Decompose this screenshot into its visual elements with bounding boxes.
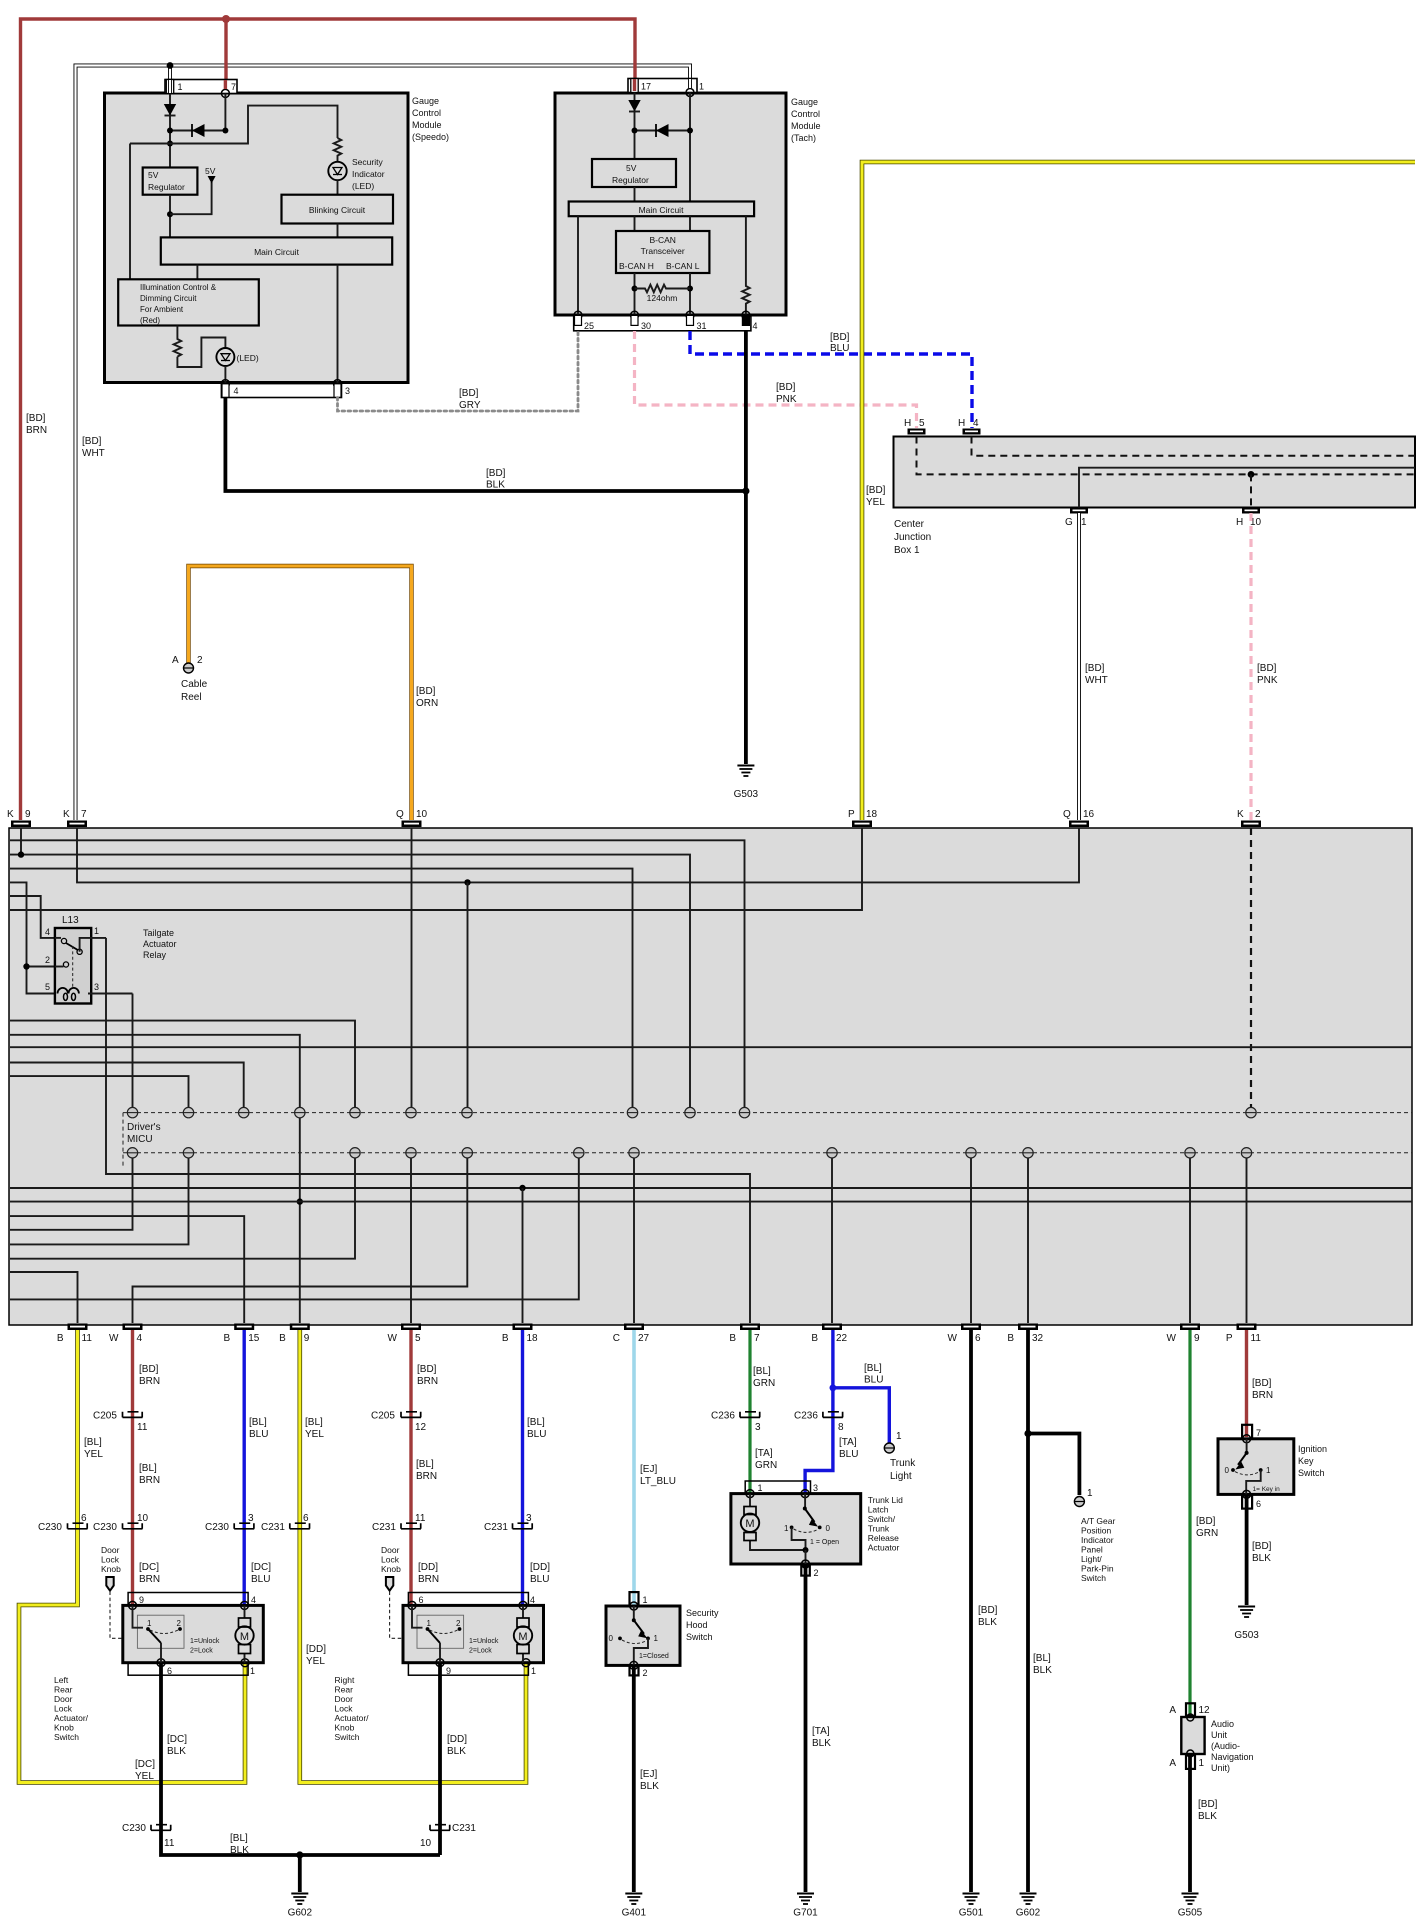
svg-text:(LED): (LED): [237, 353, 259, 363]
Blinking Circuit box: [282, 195, 394, 224]
connector B11 MICU bottom: [57, 1324, 92, 1345]
svg-text:H: H: [904, 418, 911, 429]
connector W9 MICU bottom: [1167, 1324, 1200, 1345]
wire MICU K9 line to row1-690: [10, 828, 690, 1108]
resistor R3 tach right: [742, 216, 750, 322]
svg-text:(Speedo): (Speedo): [412, 132, 449, 142]
svg-text:[BL]: [BL]: [84, 1437, 102, 1448]
connector C231-6: [261, 1513, 310, 1533]
wire MICU line to B11: [10, 1272, 78, 1323]
terminal MICU row1 x744.5: [739, 1107, 749, 1117]
connector G1: [1065, 508, 1088, 529]
svg-text:[BD]: [BD]: [830, 332, 850, 343]
connector B7 MICU bottom: [729, 1324, 760, 1345]
svg-text:C236: C236: [794, 1411, 818, 1422]
svg-text:BLK: BLK: [1198, 1811, 1217, 1822]
diode D1 speedo pin1: [164, 94, 176, 168]
Security Hood Switch pin 1 connector: [630, 1592, 648, 1606]
wire security hood to G401: [632, 1666, 636, 1892]
svg-text:G501: G501: [959, 1908, 984, 1919]
Ignition Key Switch pin 7 connector: [1242, 1425, 1261, 1439]
svg-text:L13: L13: [62, 915, 79, 926]
connector C231-11: [372, 1513, 426, 1533]
wire C27 to row2-634: [633, 1158, 635, 1323]
svg-text:Unit): Unit): [1211, 1763, 1230, 1773]
terminal AT gear pin 1: [1074, 1488, 1093, 1507]
svg-text:G701: G701: [793, 1908, 818, 1919]
svg-text:G505: G505: [1178, 1908, 1203, 1919]
svg-text:1= Key in: 1= Key in: [1253, 1486, 1281, 1493]
wire [BD] WHT white double line top: [76, 66, 691, 821]
junction dot trunk common: [803, 1547, 809, 1553]
wire W6 to row2-971: [970, 1158, 972, 1323]
svg-text:6: 6: [167, 1666, 172, 1676]
wire CJB internal solid G1: [1079, 468, 1415, 508]
svg-text:[DC]: [DC]: [251, 1562, 271, 1573]
connector K9: [7, 809, 31, 827]
wire B9 row1 to connector: [299, 1118, 301, 1323]
wire W4 to row2-467: [133, 1158, 468, 1323]
svg-text:Box 1: Box 1: [894, 545, 920, 556]
svg-text:BLU: BLU: [249, 1429, 268, 1440]
svg-text:Dimming Circuit: Dimming Circuit: [140, 294, 197, 303]
svg-text:Navigation: Navigation: [1211, 1752, 1254, 1762]
svg-text:YEL: YEL: [84, 1449, 103, 1460]
svg-text:9: 9: [25, 809, 31, 820]
svg-text:[BL]: [BL]: [1033, 1653, 1051, 1664]
diode D3 tach pin17: [628, 93, 640, 160]
label A/T Gear Position Indicator Panel Light/Park-Pin Switch: [1081, 1516, 1115, 1583]
pin 6 right actuator: [408, 1601, 416, 1609]
Ignition Key Switch box: [1218, 1439, 1294, 1495]
svg-text:B: B: [1007, 1333, 1014, 1344]
svg-text:1: 1: [784, 1524, 789, 1533]
svg-text:GRN: GRN: [1196, 1528, 1218, 1539]
Security Hood Switch pin 2 connector: [630, 1661, 648, 1678]
svg-text:W: W: [1167, 1333, 1177, 1344]
svg-text:6: 6: [975, 1333, 981, 1344]
LED security indicator: [328, 158, 346, 195]
svg-text:Lock: Lock: [101, 1555, 120, 1565]
svg-text:1: 1: [427, 1619, 432, 1628]
svg-text:Security: Security: [686, 1608, 719, 1618]
connector W4 MICU bottom: [109, 1324, 142, 1345]
svg-text:[BL]: [BL]: [305, 1417, 323, 1428]
wire B9 [BL] YEL to right actuator: [300, 1330, 526, 1783]
svg-text:Ignition: Ignition: [1298, 1444, 1327, 1454]
junction dot red pin7: [222, 15, 230, 23]
terminal MICU row1 x467: [462, 1107, 472, 1117]
svg-text:Module: Module: [412, 120, 442, 130]
svg-text:124ohm: 124ohm: [647, 293, 678, 303]
speedo top connector pins 1,7: [165, 80, 237, 98]
svg-text:2=Lock: 2=Lock: [469, 1648, 492, 1655]
svg-text:27: 27: [638, 1333, 650, 1344]
dashed MICU boundary: [122, 1113, 124, 1168]
connector B18 MICU bottom: [502, 1324, 538, 1345]
svg-text:Light/: Light/: [1081, 1554, 1102, 1564]
svg-text:C: C: [613, 1333, 620, 1344]
node 5V arrow branch: [167, 166, 216, 217]
svg-text:[BL]: [BL]: [753, 1366, 771, 1377]
wire W6 [BD] BLK: [969, 1330, 973, 1892]
svg-text:C205: C205: [371, 1411, 395, 1422]
Ignition Key Switch pin 6 connector: [1242, 1490, 1261, 1509]
svg-text:Release: Release: [868, 1533, 899, 1543]
connector C236-3: [711, 1411, 761, 1434]
svg-text:Actuator: Actuator: [143, 939, 177, 949]
svg-text:GRN: GRN: [753, 1378, 775, 1389]
svg-text:BRN: BRN: [139, 1376, 160, 1387]
wire blinking to main: [337, 224, 339, 238]
svg-text:[DC]: [DC]: [135, 1759, 155, 1770]
svg-text:Gauge: Gauge: [791, 97, 818, 107]
Security Hood Switch box: [606, 1606, 680, 1665]
svg-text:1: 1: [1266, 1466, 1271, 1475]
svg-text:Switch/: Switch/: [868, 1514, 896, 1524]
svg-text:Gauge: Gauge: [412, 96, 439, 106]
svg-text:[TA]: [TA]: [755, 1448, 773, 1459]
svg-text:[BD]: [BD]: [459, 388, 479, 399]
svg-text:11: 11: [137, 1422, 148, 1433]
terminal MICU row2 x132.5: [127, 1148, 137, 1158]
ground G503: [734, 766, 759, 801]
svg-text:BRN: BRN: [26, 425, 47, 436]
terminal cable reel pin A2: [172, 655, 208, 703]
svg-text:Switch: Switch: [335, 1732, 360, 1742]
motor M trunk release: [741, 1494, 806, 1550]
svg-text:M: M: [518, 1631, 527, 1643]
junction dot B18: [519, 1185, 525, 1191]
svg-text:Rear: Rear: [335, 1685, 354, 1695]
svg-text:Hood: Hood: [686, 1620, 708, 1630]
svg-text:5V: 5V: [148, 170, 159, 180]
terminal trunk light pin 1: [884, 1431, 916, 1482]
wire main left to pin 25: [577, 216, 579, 322]
pin 9 left actuator: [129, 1601, 137, 1609]
label Left Rear Door Lock Actuator/Knob Switch: [54, 1675, 89, 1742]
terminal MICU row2 x832: [827, 1148, 837, 1158]
junction dot ground bus: [742, 487, 749, 494]
svg-text:11: 11: [415, 1513, 426, 1524]
svg-text:BRN: BRN: [139, 1574, 160, 1585]
svg-text:Transceiver: Transceiver: [641, 246, 685, 256]
wire B22 [BL] BLU trunk: [805, 1330, 889, 1493]
svg-text:G503: G503: [734, 789, 759, 800]
svg-text:2: 2: [177, 1619, 182, 1628]
svg-text:[EJ]: [EJ]: [640, 1769, 657, 1780]
svg-text:Main Circuit: Main Circuit: [254, 247, 300, 257]
svg-text:Door: Door: [54, 1694, 73, 1704]
svg-text:Door: Door: [381, 1545, 400, 1555]
svg-text:Right: Right: [335, 1675, 355, 1685]
wire left branch to illumination: [129, 144, 131, 280]
pin 1 left actuator: [241, 1659, 249, 1667]
node speedo security branch: [130, 106, 338, 144]
svg-text:A: A: [1169, 1705, 1176, 1716]
connector H5: [904, 418, 926, 435]
svg-text:Latch: Latch: [868, 1505, 889, 1515]
svg-text:Door: Door: [101, 1545, 120, 1555]
svg-text:Q: Q: [396, 809, 404, 820]
Gauge Control Module (Tach) box: [555, 93, 786, 315]
svg-text:4: 4: [137, 1333, 143, 1344]
svg-text:1: 1: [1087, 1488, 1093, 1499]
terminal MICU row1 x299.8: [295, 1107, 305, 1117]
connector C230-11: [122, 1823, 175, 1849]
svg-text:[DD]: [DD]: [306, 1644, 326, 1655]
svg-text:LT_BLU: LT_BLU: [640, 1476, 676, 1487]
svg-text:B: B: [57, 1333, 64, 1344]
svg-text:6: 6: [81, 1513, 87, 1524]
wire [BD] BLK speedo pin4 to ground bus: [225, 398, 746, 492]
junction dot relay pin2: [23, 963, 29, 969]
ground G401: [622, 1894, 647, 1919]
svg-text:7: 7: [1256, 1428, 1261, 1438]
junction dot CJB H10 branch: [1248, 471, 1255, 478]
svg-text:Tailgate: Tailgate: [143, 928, 174, 938]
svg-text:5V: 5V: [626, 163, 637, 173]
connector Q16: [1063, 809, 1095, 827]
wire C27 [EJ] LT_BLU: [632, 1330, 636, 1605]
svg-text:2: 2: [814, 1568, 819, 1578]
svg-text:Switch: Switch: [54, 1732, 79, 1742]
wire [BD] BRN dark red top bus: [21, 19, 636, 820]
svg-text:BLK: BLK: [167, 1746, 186, 1757]
svg-text:30: 30: [641, 321, 651, 331]
svg-text:1=Closed: 1=Closed: [639, 1653, 669, 1660]
svg-text:Knob: Knob: [54, 1723, 74, 1733]
ground G602 right: [1016, 1894, 1041, 1919]
svg-text:PNK: PNK: [1257, 675, 1278, 686]
svg-text:7: 7: [231, 82, 236, 92]
svg-text:[BD]: [BD]: [1085, 663, 1105, 674]
svg-text:Q: Q: [1063, 809, 1071, 820]
Trunk lid latch shell: [745, 1481, 810, 1494]
svg-text:18: 18: [527, 1333, 539, 1344]
resistor 124ohm: [632, 273, 694, 322]
svg-text:BLK: BLK: [640, 1781, 659, 1792]
svg-text:6: 6: [303, 1513, 309, 1524]
wire B22 to row2-832: [831, 1158, 833, 1323]
svg-text:1: 1: [896, 1431, 902, 1442]
wire B18 [BL] BLU: [521, 1330, 524, 1606]
wire resistor to LED red: [177, 338, 225, 368]
wire main to pin 3: [337, 265, 339, 384]
connector H4: [958, 418, 981, 435]
svg-text:2: 2: [643, 1668, 648, 1678]
terminal MICU row1 x243.7: [239, 1107, 249, 1117]
svg-text:3: 3: [526, 1513, 532, 1524]
svg-text:G602: G602: [288, 1908, 313, 1919]
wire MICU line to row2-355: [10, 1158, 355, 1259]
terminal MICU row2 x1190: [1185, 1148, 1195, 1158]
terminal MICU row1 x1251: [1246, 1107, 1256, 1117]
Gauge Control Module (Speedo) box: [105, 93, 409, 383]
svg-text:[BD]: [BD]: [866, 485, 886, 496]
wire [BD] PNK H10 to K2: [1249, 513, 1252, 820]
junction dot line882 drop: [464, 879, 470, 885]
svg-text:Park-Pin: Park-Pin: [1081, 1564, 1114, 1574]
svg-text:11: 11: [1251, 1333, 1262, 1344]
svg-text:Regulator: Regulator: [612, 175, 649, 185]
svg-text:0: 0: [826, 1524, 831, 1533]
svg-text:Driver's: Driver's: [127, 1122, 161, 1133]
terminal MICU row2 x578.8: [574, 1148, 584, 1158]
wire B32 to row2-1028: [1027, 1158, 1029, 1323]
tach top connector pins 17,1: [628, 79, 704, 97]
svg-text:G: G: [1065, 517, 1073, 528]
svg-text:9: 9: [1194, 1333, 1200, 1344]
terminal MICU row1 x355: [350, 1107, 360, 1117]
svg-text:1: 1: [531, 1666, 536, 1676]
wire relay pin3 to row1-132: [132, 994, 134, 1108]
svg-text:2: 2: [197, 655, 203, 666]
svg-text:B: B: [502, 1333, 509, 1344]
svg-text:For Ambient: For Ambient: [140, 305, 184, 314]
svg-text:K: K: [1237, 809, 1244, 820]
svg-text:Actuator: Actuator: [868, 1543, 900, 1553]
svg-text:12: 12: [415, 1422, 427, 1433]
svg-text:Module: Module: [791, 121, 821, 131]
connector B15 MICU bottom: [224, 1324, 260, 1345]
svg-text:[BL]: [BL]: [230, 1833, 248, 1844]
terminal MICU row2 x634: [629, 1148, 639, 1158]
connector B32 MICU bottom: [1007, 1324, 1043, 1345]
svg-text:4: 4: [234, 386, 239, 396]
wire MICU line to row1-243: [10, 1063, 244, 1108]
wire P11 to row2-1246: [1246, 1158, 1248, 1323]
svg-text:0: 0: [609, 1634, 614, 1643]
svg-text:Cable: Cable: [181, 679, 208, 690]
connector C230-3: [205, 1513, 254, 1533]
wire B32 [BL] BLK: [1028, 1330, 1079, 1892]
svg-text:10: 10: [416, 809, 428, 820]
svg-text:BLK: BLK: [978, 1617, 997, 1628]
svg-text:5: 5: [45, 982, 50, 992]
wire audio to G505: [1188, 1755, 1192, 1893]
svg-text:[BD]: [BD]: [1252, 1541, 1272, 1552]
svg-text:1: 1: [94, 926, 99, 936]
svg-text:(LED): (LED): [352, 181, 374, 191]
svg-text:[BD]: [BD]: [417, 1364, 437, 1375]
svg-text:3: 3: [755, 1422, 761, 1433]
svg-text:Position: Position: [1081, 1526, 1112, 1536]
svg-text:32: 32: [1032, 1333, 1044, 1344]
svg-text:8: 8: [838, 1422, 844, 1433]
svg-text:PNK: PNK: [776, 394, 797, 405]
wire MICU line to row1-632: [10, 869, 633, 1108]
svg-text:C230: C230: [122, 1823, 146, 1834]
switch area right actuator: [412, 1605, 464, 1662]
ground G701: [793, 1894, 818, 1919]
diode D4 tach horizontal: [632, 93, 694, 202]
wire W4 [BD] BRN: [131, 1330, 134, 1606]
svg-text:[DD]: [DD]: [418, 1562, 438, 1573]
svg-text:Junction: Junction: [894, 532, 931, 543]
svg-text:BLU: BLU: [251, 1574, 270, 1585]
junction white wire at speedo pin 1: [167, 62, 174, 69]
svg-text:4: 4: [530, 1595, 535, 1605]
svg-text:Actuator/: Actuator/: [54, 1713, 89, 1723]
wire MICU stub to relay pin 4: [10, 896, 55, 938]
wire main to illumination: [196, 265, 198, 280]
wire CJB internal dashed H5: [917, 437, 1416, 475]
svg-text:YEL: YEL: [866, 497, 885, 508]
wire MICU line to row2-132: [10, 1158, 133, 1230]
svg-text:[BD]: [BD]: [486, 468, 506, 479]
svg-text:C230: C230: [205, 1522, 229, 1533]
svg-text:P: P: [848, 809, 855, 820]
wire [BD] PNK dashed tach pin30: [635, 331, 917, 428]
svg-text:C236: C236: [711, 1411, 735, 1422]
switch security hood: [609, 1606, 669, 1665]
svg-text:5: 5: [415, 1333, 421, 1344]
svg-text:1: 1: [758, 1483, 763, 1493]
svg-text:1=Unlock: 1=Unlock: [190, 1638, 220, 1645]
wire [BD] ORN cable reel to Q10: [189, 566, 412, 820]
connector B22 MICU bottom: [811, 1324, 847, 1345]
switch ignition key: [1225, 1439, 1281, 1495]
svg-text:B-CAN L: B-CAN L: [666, 261, 700, 271]
svg-text:C231: C231: [372, 1522, 396, 1533]
wire MICU K7 to Q16: [77, 828, 1079, 882]
svg-text:Light: Light: [890, 1471, 912, 1482]
svg-text:[DD]: [DD]: [530, 1562, 550, 1573]
Main Circuit box tach: [569, 202, 754, 217]
junction dot B9: [297, 1198, 303, 1204]
label Trunk Lid Latch Switch/Trunk Release Actuator: [868, 1495, 903, 1553]
svg-text:1: 1: [654, 1634, 659, 1643]
svg-text:Security: Security: [352, 157, 383, 167]
svg-text:15: 15: [248, 1333, 260, 1344]
svg-text:B: B: [729, 1333, 736, 1344]
connector C27 MICU bottom: [613, 1324, 650, 1345]
connector K2: [1237, 809, 1261, 827]
svg-text:10: 10: [137, 1513, 149, 1524]
svg-text:Door: Door: [335, 1694, 354, 1704]
terminal MICU row2 x971: [966, 1148, 976, 1158]
svg-text:B: B: [279, 1333, 286, 1344]
svg-text:9: 9: [446, 1666, 451, 1676]
motor M right actuator: [514, 1605, 532, 1662]
speedo bottom connector pins 4,3: [221, 380, 350, 398]
svg-text:GRN: GRN: [755, 1460, 777, 1471]
svg-text:6: 6: [419, 1595, 424, 1605]
svg-text:Reel: Reel: [181, 692, 202, 703]
wire CJB dashed to H10: [1250, 474, 1252, 507]
svg-text:22: 22: [836, 1333, 848, 1344]
svg-text:WHT: WHT: [82, 448, 105, 459]
svg-text:W: W: [948, 1333, 958, 1344]
resistor R2 dimming: [174, 326, 182, 357]
terminal MICU row2 x188.5: [183, 1148, 193, 1158]
wire regulator to main tach: [634, 187, 636, 202]
connector C231-10: [420, 1823, 476, 1849]
svg-text:0: 0: [1225, 1466, 1230, 1475]
svg-text:Switch: Switch: [686, 1632, 713, 1642]
svg-text:Relay: Relay: [143, 950, 167, 960]
svg-text:1: 1: [250, 1666, 255, 1676]
wire MICU full line 1201: [10, 1201, 1412, 1203]
svg-text:Control: Control: [412, 108, 441, 118]
svg-text:(Audio-: (Audio-: [1211, 1741, 1240, 1751]
svg-text:K: K: [7, 809, 14, 820]
svg-text:2=Lock: 2=Lock: [190, 1648, 213, 1655]
terminal MICU row1 x690: [685, 1107, 695, 1117]
svg-text:3: 3: [345, 386, 350, 396]
svg-text:GRY: GRY: [459, 400, 481, 411]
